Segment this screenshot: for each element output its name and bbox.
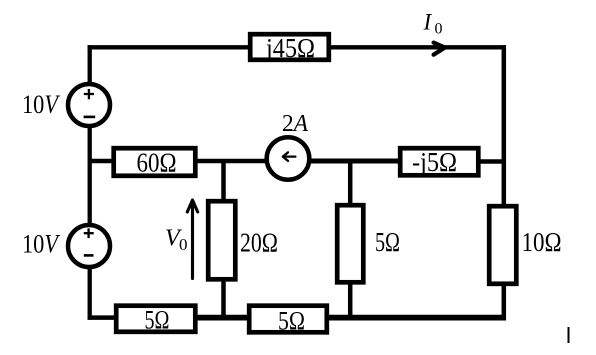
current source 2A [267,137,310,180]
voltage source V1 [68,84,110,126]
wire middle: 60ohm to source [195,159,268,164]
svg-text:20Ω: 20Ω [240,228,278,258]
wire left vertical bottom [88,266,92,320]
svg-text:0: 0 [179,235,188,254]
current arrow I0 head [434,43,445,55]
resistor 5 (bottom-left) box [116,306,195,332]
svg-text:10V: 10V [22,90,61,119]
wire right vertical top [502,45,507,206]
wire 20ohm top lead [221,161,226,202]
svg-text:10Ω: 10Ω [522,227,562,257]
svg-text:I: I [423,10,433,35]
wire 20ohm bottom lead [221,279,226,320]
current source internal arrow [283,152,296,161]
resistor j45 box [250,34,329,60]
wire left vertical middle [88,125,92,225]
svg-text:60Ω: 60Ω [137,148,177,178]
wire bottom: right run [325,315,506,321]
resistor 60 box [114,148,196,176]
voltage source V2 [68,225,110,267]
wire top-right horizontal [329,45,506,49]
svg-text:5Ω: 5Ω [145,306,170,335]
V1 minus sign [84,116,96,119]
resistor -j5 box [400,148,478,175]
svg-text:5Ω: 5Ω [278,307,305,336]
svg-text:5Ω: 5Ω [375,227,400,257]
voltage arrow V0 [187,200,197,279]
resistor 5 (middle) box [337,205,363,282]
resistor 5 (bottom-right) box [249,306,327,333]
resistor 20 box [208,201,235,279]
wire bottom: left elbow [88,315,116,320]
stray text cursor mark [568,327,570,343]
wire middle: left stub [90,159,114,164]
wire top-left horizontal [88,45,250,49]
svg-text:2A: 2A [282,111,308,137]
V2 minus sign [84,254,94,257]
wire 5ohm-mid top lead [348,161,353,205]
V1 plus sign [84,89,94,99]
resistor 10 box [489,206,516,284]
wire right vertical bottom [502,283,507,320]
V2 plus sign [84,228,94,238]
svg-text:-j5Ω: -j5Ω [412,147,457,177]
wire left vertical top [88,45,92,85]
svg-text:0: 0 [435,21,443,38]
wire middle: -j5 to right rail [478,159,506,164]
wire 5ohm-mid bottom lead [348,282,353,320]
wire bottom: between 5ohm boxes [194,315,250,321]
wire middle: source to -j5 [308,159,401,164]
svg-text:10V: 10V [22,230,61,259]
